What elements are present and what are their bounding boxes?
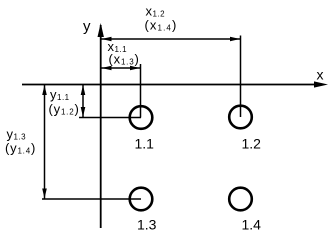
dimension line x1.2 (x1.4): [102, 38, 241, 40]
hole 1.3 circle: [130, 188, 153, 211]
hole 1.1 circle: [130, 106, 153, 129]
svg-text:1.2: 1.2: [242, 136, 262, 152]
dimension arrow right at 1.2 extension: [230, 37, 240, 42]
dimension line y1.1 (y1.2): [82, 85, 84, 117]
dimension arrow up at x-axis: [81, 85, 86, 95]
dimension line y1.3 (y1.4): [44, 85, 46, 199]
svg-text:x: x: [317, 67, 324, 83]
x axis: [22, 84, 322, 86]
dimension line x1.1 (x1.3): [102, 67, 141, 69]
hole 1.2 circle: [229, 106, 252, 129]
hole 1.4 circle: [229, 188, 252, 211]
svg-text:1.4: 1.4: [242, 217, 262, 233]
svg-text:1.1: 1.1: [135, 136, 155, 152]
dimension arrow left at y-axis: [102, 66, 112, 71]
extension line from hole 1.1 (horizontal): [79, 117, 141, 119]
y axis: [100, 25, 102, 228]
svg-text:1.3: 1.3: [137, 217, 157, 233]
dimension arrow up at x-axis: [42, 85, 47, 95]
extension line from hole 1.3 (horizontal): [42, 198, 141, 200]
dimension arrow down at 1.1 extension: [81, 107, 86, 117]
svg-text:y: y: [83, 18, 91, 35]
dimension arrow left at y-axis: [102, 37, 112, 42]
extension line from hole 1.2 (vertical): [240, 36, 242, 118]
y axis arrowhead: [98, 23, 104, 37]
x axis arrowhead: [314, 81, 328, 87]
dimension arrow right at 1.1 extension: [130, 66, 140, 71]
extension line from hole 1.1 (vertical): [140, 64, 142, 118]
dimension arrow down at 1.3 extension: [42, 189, 47, 199]
